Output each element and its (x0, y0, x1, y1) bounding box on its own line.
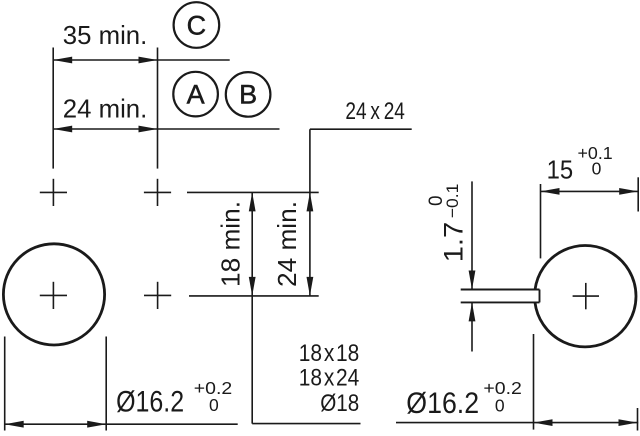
svg-text:0: 0 (592, 159, 602, 179)
svg-text:24 min.: 24 min. (63, 94, 148, 124)
svg-text:15: 15 (547, 154, 574, 184)
svg-text:Ø16.2: Ø16.2 (406, 387, 479, 420)
svg-text:18 x 24: 18 x 24 (299, 365, 360, 392)
svg-text:1.7: 1.7 (438, 222, 468, 263)
svg-text:C: C (187, 10, 207, 40)
svg-text:18 min.: 18 min. (216, 201, 246, 287)
svg-text:Ø16.2: Ø16.2 (116, 385, 184, 418)
svg-text:B: B (239, 80, 257, 110)
svg-text:24 min.: 24 min. (272, 201, 302, 287)
svg-text:0: 0 (495, 395, 505, 415)
svg-text:Ø18: Ø18 (320, 390, 359, 417)
svg-text:18 x 18: 18 x 18 (299, 340, 360, 367)
svg-text:35 min.: 35 min. (63, 20, 148, 50)
svg-text:0: 0 (426, 196, 447, 207)
svg-text:A: A (187, 79, 205, 109)
svg-text:0: 0 (209, 395, 219, 415)
svg-text:24 x 24: 24 x 24 (345, 98, 405, 125)
